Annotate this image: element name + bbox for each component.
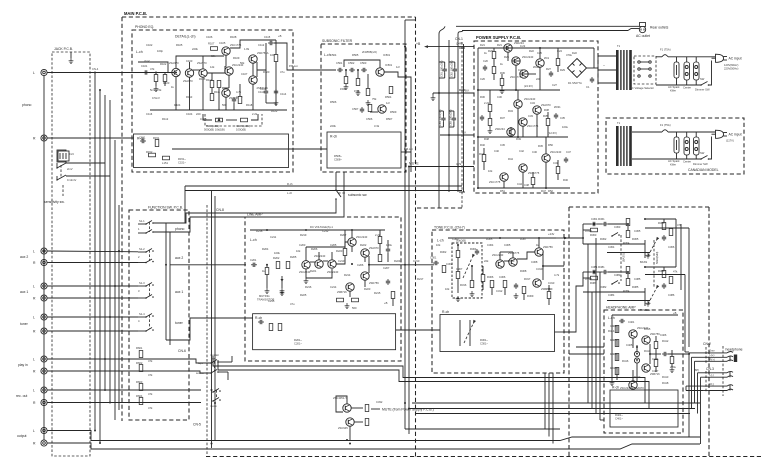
svg-text:R418: R418 bbox=[662, 381, 669, 385]
svg-text:R306: R306 bbox=[487, 275, 494, 279]
svg-text:22k: 22k bbox=[484, 259, 489, 263]
svg-text:R214: R214 bbox=[344, 273, 351, 277]
svg-text:output: output bbox=[17, 434, 26, 438]
svg-text:220V(50Hz): 220V(50Hz) bbox=[724, 67, 738, 71]
svg-text:R385: R385 bbox=[632, 285, 639, 289]
resistor R152 bbox=[146, 150, 156, 157]
capacitor C381 bbox=[591, 270, 597, 274]
resistor R210 bbox=[352, 298, 359, 302]
wire ps inner rails bbox=[478, 48, 594, 188]
svg-text:C364: C364 bbox=[608, 245, 615, 249]
svg-text:R23: R23 bbox=[488, 49, 493, 53]
svg-text:R223: R223 bbox=[364, 287, 371, 291]
svg-text:IC501: IC501 bbox=[385, 63, 393, 67]
svg-text:T1: T1 bbox=[617, 44, 621, 48]
wire BK2 bbox=[440, 131, 474, 136]
svg-text:C502: C502 bbox=[348, 61, 355, 65]
resistor R26 bbox=[556, 59, 560, 66]
svg-text:PHONO EQ.: PHONO EQ. bbox=[135, 25, 154, 29]
svg-text:R225: R225 bbox=[300, 293, 307, 297]
wire function to lineamp R bbox=[166, 318, 253, 340]
svg-text:C116: C116 bbox=[146, 112, 153, 116]
svg-text:2SC2240: 2SC2240 bbox=[522, 55, 534, 59]
svg-text:220k: 220k bbox=[192, 47, 198, 51]
svg-text:R308: R308 bbox=[520, 269, 527, 273]
wire q2q3 bbox=[193, 69, 200, 71]
transistor Q205 bbox=[361, 246, 379, 257]
svg-text:R37: R37 bbox=[500, 116, 505, 120]
svg-text:R110: R110 bbox=[186, 95, 193, 99]
svg-text:47k: 47k bbox=[677, 223, 682, 227]
svg-text:C303: C303 bbox=[452, 237, 459, 241]
svg-text:2SA970: 2SA970 bbox=[369, 246, 379, 250]
svg-text:R305: R305 bbox=[486, 237, 493, 241]
sensitivity switch bbox=[56, 150, 76, 182]
wire bus v4 bbox=[109, 100, 111, 403]
sensitivity dashed link bbox=[58, 151, 69, 196]
svg-text:C104: C104 bbox=[186, 112, 193, 116]
svg-text:D1 S5277A: D1 S5277A bbox=[568, 81, 582, 85]
resistor R213 bbox=[384, 292, 395, 306]
resistor R403 bbox=[615, 354, 619, 361]
svg-text:R-ch: R-ch bbox=[255, 316, 262, 320]
bridge rectifier D1 bbox=[568, 59, 587, 86]
tone RC network L-ch bbox=[583, 217, 676, 264]
svg-text:sensitivity sw.: sensitivity sw. bbox=[44, 200, 65, 204]
svg-text:150k: 150k bbox=[354, 89, 360, 93]
resistor R333 bbox=[626, 231, 630, 238]
muting transistor Q91 bbox=[333, 396, 351, 412]
power stubs2 bbox=[484, 48, 558, 188]
transistor Q8 bbox=[495, 127, 515, 136]
svg-text:47u: 47u bbox=[280, 70, 285, 74]
svg-text:+B: +B bbox=[278, 34, 282, 38]
svg-text:C310: C310 bbox=[536, 267, 543, 271]
svg-text:Center: Center bbox=[683, 160, 691, 164]
svg-text:R218: R218 bbox=[256, 229, 263, 233]
svg-text:R206: R206 bbox=[311, 247, 318, 251]
resistor R332 bbox=[626, 219, 630, 226]
subsonic R-ch box bbox=[327, 132, 401, 168]
wire tuner L to sw bbox=[47, 316, 138, 318]
svg-text:1/2: 1/2 bbox=[386, 101, 390, 105]
svg-text:R219: R219 bbox=[300, 233, 307, 237]
svg-text:C308: C308 bbox=[531, 260, 538, 264]
transistor Q5 bbox=[514, 97, 536, 108]
filter block 1C bbox=[683, 132, 691, 164]
AC line wires to outlet bbox=[456, 26, 639, 30]
resistor R212 bbox=[378, 255, 382, 262]
svg-text:R38: R38 bbox=[544, 108, 549, 112]
svg-text:C301: C301 bbox=[430, 256, 437, 260]
resistor R201 bbox=[265, 265, 270, 294]
resistor R151 bbox=[153, 136, 160, 147]
svg-text:R152: R152 bbox=[146, 150, 153, 154]
transistor Q7 bbox=[519, 118, 539, 128]
svg-text:47k: 47k bbox=[673, 270, 678, 274]
svg-text:Dimmer SW.: Dimmer SW. bbox=[695, 88, 710, 92]
resistor R91 bbox=[365, 405, 369, 412]
MUTE feed wire bbox=[409, 162, 474, 167]
wire rail Lch bbox=[185, 191, 462, 196]
svg-text:+B: +B bbox=[673, 311, 677, 315]
svg-text:R122: R122 bbox=[271, 109, 278, 113]
resistor RF4 bbox=[136, 394, 143, 405]
wire trim bbox=[203, 114, 212, 120]
wire mid bbox=[207, 66, 225, 73]
svg-text:2SA970: 2SA970 bbox=[169, 61, 179, 65]
svg-text:R151: R151 bbox=[153, 136, 160, 140]
svg-text:R107: R107 bbox=[208, 42, 215, 46]
capacitor C61 bbox=[439, 60, 447, 78]
svg-text:headphone: headphone bbox=[726, 348, 743, 352]
svg-text:R21: R21 bbox=[497, 43, 502, 47]
svg-text:ZD31: ZD31 bbox=[554, 105, 561, 109]
svg-text:L(-): L(-) bbox=[710, 373, 714, 377]
svg-text:C206: C206 bbox=[357, 263, 364, 267]
capacitor C201 bbox=[250, 258, 257, 267]
transistor Q107 bbox=[249, 76, 268, 90]
svg-text:R27: R27 bbox=[546, 67, 551, 71]
AC spark killer bbox=[668, 57, 680, 93]
muting transistor label bbox=[257, 294, 274, 302]
svg-text:1.8k: 1.8k bbox=[244, 47, 250, 51]
wire rc links R bbox=[583, 267, 676, 292]
resistor R407 bbox=[670, 357, 674, 364]
headphone amp dashed box bbox=[604, 310, 683, 433]
wire pb out R bbox=[172, 148, 289, 150]
diode D402 bbox=[634, 358, 639, 363]
canadian model dashed box bbox=[606, 118, 744, 174]
svg-text:L: L bbox=[33, 358, 35, 362]
power supply dashed box bbox=[474, 41, 598, 193]
svg-text:C151~: C151~ bbox=[178, 161, 186, 165]
svg-text:R106: R106 bbox=[199, 77, 206, 81]
resistor R331 bbox=[591, 228, 598, 232]
svg-text:R386: R386 bbox=[658, 269, 665, 273]
svg-text:Killer: Killer bbox=[670, 89, 676, 93]
svg-text:R109: R109 bbox=[233, 56, 240, 60]
svg-text:0.22: 0.22 bbox=[520, 44, 526, 48]
svg-text:R382: R382 bbox=[600, 285, 607, 289]
svg-text:HEADPHONE AMP: HEADPHONE AMP bbox=[606, 306, 636, 310]
wire aux1 R to sw bbox=[47, 297, 138, 299]
transistor Q304 bbox=[533, 279, 551, 291]
rc out wires bbox=[645, 223, 689, 352]
svg-text:F1 (T5A): F1 (T5A) bbox=[660, 123, 671, 127]
svg-text:aux 1: aux 1 bbox=[175, 290, 183, 294]
line amp grounds bbox=[280, 278, 350, 309]
+B feed wire bbox=[416, 42, 474, 48]
capacitor C384 bbox=[662, 283, 666, 289]
wire bus v5 bbox=[114, 140, 116, 420]
ground bbox=[69, 52, 74, 64]
transistor Q103 bbox=[197, 61, 207, 77]
pot gang dotted vertical bbox=[621, 235, 659, 287]
switch SWC bbox=[632, 137, 712, 167]
svg-text:R103: R103 bbox=[163, 81, 170, 85]
pin labels bbox=[694, 368, 699, 372]
svg-text:R52: R52 bbox=[548, 189, 553, 193]
wire BK1 bbox=[431, 89, 474, 101]
svg-text:2SC4051-Y: 2SC4051-Y bbox=[333, 396, 347, 400]
svg-text:CN-3: CN-3 bbox=[706, 367, 714, 371]
svg-text:R118: R118 bbox=[246, 103, 253, 107]
svg-text:C46: C46 bbox=[532, 150, 537, 154]
svg-text:C214: C214 bbox=[330, 285, 337, 289]
jack output R bbox=[33, 440, 47, 446]
svg-text:R36: R36 bbox=[500, 71, 505, 75]
svg-text:(24P): (24P) bbox=[456, 42, 463, 46]
svg-text:L-ch: L-ch bbox=[608, 316, 615, 320]
svg-text:+24V: +24V bbox=[548, 232, 555, 236]
capacitor C209 bbox=[386, 279, 390, 285]
resistor R334 bbox=[662, 223, 666, 230]
label la rch parts bbox=[294, 338, 302, 346]
wire ha out bbox=[668, 353, 689, 355]
svg-text:R-ch: R-ch bbox=[612, 386, 619, 390]
svg-text:R415: R415 bbox=[644, 327, 651, 331]
switch aux1 R bbox=[138, 284, 154, 299]
svg-text:2SC2240: 2SC2240 bbox=[492, 253, 504, 257]
tone RC network R-ch bbox=[583, 265, 676, 312]
svg-text:0.033: 0.033 bbox=[585, 229, 592, 233]
svg-text:C507: C507 bbox=[352, 107, 359, 111]
svg-text:T1: T1 bbox=[617, 121, 621, 125]
labels power cluster bbox=[480, 43, 572, 193]
capacitor C401 bbox=[619, 319, 635, 324]
right dashed box (tone/headphone pcb) bbox=[569, 207, 709, 456]
svg-text:2SC2240⊠ 2SA970: 2SC2240⊠ 2SA970 bbox=[620, 386, 644, 390]
svg-text:120V(60Hz): 120V(60Hz) bbox=[724, 63, 738, 67]
svg-text:C384: C384 bbox=[608, 293, 615, 297]
svg-text:C312: C312 bbox=[496, 289, 503, 293]
svg-text:R603: R603 bbox=[136, 380, 143, 384]
capacitor C62 bbox=[449, 60, 457, 78]
subsonic switch bbox=[335, 172, 367, 205]
svg-text:100Ω(B): 100Ω(B) bbox=[236, 128, 246, 132]
svg-text:2N4558(1/2): 2N4558(1/2) bbox=[362, 50, 377, 54]
lineamp stubs bbox=[306, 230, 393, 306]
svg-text:C210: C210 bbox=[413, 259, 420, 263]
svg-text:560: 560 bbox=[352, 306, 357, 310]
svg-text:R34: R34 bbox=[508, 109, 513, 113]
wire rec-out R bbox=[47, 402, 201, 404]
svg-text:L: L bbox=[33, 71, 35, 75]
capacitor C32 bbox=[554, 113, 558, 119]
filter block 2C bbox=[694, 132, 700, 159]
capacitor C402 bbox=[662, 352, 668, 356]
svg-text:R508~: R508~ bbox=[334, 154, 342, 158]
transistor Q104 bbox=[222, 43, 242, 55]
svg-text:C407: C407 bbox=[652, 369, 659, 373]
jack phono L bbox=[33, 69, 47, 75]
svg-text:R108: R108 bbox=[230, 35, 237, 39]
resistor R101 bbox=[150, 73, 162, 93]
wire output R long bbox=[47, 443, 700, 449]
svg-text:R505: R505 bbox=[352, 53, 359, 57]
svg-text:47k: 47k bbox=[148, 406, 153, 410]
svg-text:47k: 47k bbox=[148, 359, 153, 363]
resistor R43 bbox=[556, 167, 560, 174]
svg-text:Rear outlets: Rear outlets bbox=[650, 26, 669, 30]
switch turnover R bbox=[611, 281, 620, 285]
svg-text:(24.3V): (24.3V) bbox=[524, 84, 533, 88]
wire subsonic in L bbox=[293, 69, 336, 71]
svg-text:R604: R604 bbox=[136, 394, 143, 398]
transistor Q301 bbox=[492, 253, 504, 268]
svg-text:R28: R28 bbox=[504, 55, 509, 59]
svg-text:Killer: Killer bbox=[670, 163, 676, 167]
diode D401 bbox=[634, 351, 639, 356]
svg-text:0.5mV: 0.5mV bbox=[152, 96, 160, 100]
diode D201 bbox=[280, 276, 285, 294]
svg-text:R301~: R301~ bbox=[480, 338, 488, 342]
svg-text:R.ch: R.ch bbox=[287, 182, 293, 186]
svg-text:2SD756: 2SD756 bbox=[650, 332, 660, 336]
transistor Q202 bbox=[314, 254, 326, 268]
resistor R92 bbox=[365, 419, 369, 426]
svg-text:Center: Center bbox=[683, 86, 691, 90]
capacitor C331 bbox=[591, 222, 597, 226]
svg-text:R22: R22 bbox=[529, 49, 534, 53]
transistor Q105 bbox=[225, 63, 244, 75]
svg-text:S1-3: S1-3 bbox=[139, 281, 145, 285]
svg-text:C313: C313 bbox=[548, 281, 555, 285]
resistor R251 bbox=[269, 324, 273, 331]
label +B ha bbox=[673, 311, 677, 315]
svg-text:MAIN P.C.B.: MAIN P.C.B. bbox=[124, 11, 147, 16]
svg-text:R309: R309 bbox=[527, 294, 534, 298]
transistor Q206 bbox=[361, 272, 379, 285]
wire aux2 R to sw bbox=[47, 262, 138, 264]
svg-text:C207: C207 bbox=[383, 266, 390, 270]
svg-text:L: L bbox=[33, 316, 35, 320]
svg-text:C306: C306 bbox=[499, 275, 506, 279]
capacitor C333 bbox=[662, 235, 666, 241]
svg-text:R307: R307 bbox=[520, 237, 527, 241]
svg-text:R30: R30 bbox=[480, 95, 485, 99]
resistor R114 bbox=[210, 94, 214, 101]
svg-text:R602: R602 bbox=[136, 361, 143, 365]
svg-text:C401~: C401~ bbox=[615, 417, 623, 421]
svg-text:2SC1775: 2SC1775 bbox=[528, 171, 540, 175]
resistor R113 bbox=[206, 78, 214, 88]
transistor Q10 bbox=[542, 150, 562, 162]
svg-text:R47: R47 bbox=[541, 189, 546, 193]
CN dashed vertical bbox=[206, 205, 208, 455]
svg-text:L: L bbox=[33, 429, 35, 433]
resistor R404 bbox=[615, 368, 619, 375]
svg-text:C1: C1 bbox=[586, 85, 590, 89]
svg-text:C506: C506 bbox=[366, 117, 373, 121]
capacitor C31 bbox=[480, 115, 484, 121]
svg-text:220u: 220u bbox=[670, 365, 676, 369]
resistor R406 bbox=[654, 360, 658, 367]
svg-text:R414: R414 bbox=[608, 329, 615, 333]
svg-text:C332: C332 bbox=[376, 400, 383, 404]
CN-3 connector bbox=[703, 367, 714, 393]
svg-text:AC Spark: AC Spark bbox=[668, 159, 680, 163]
svg-text:CN-5: CN-5 bbox=[193, 423, 201, 427]
svg-text:R506: R506 bbox=[330, 100, 337, 104]
ground bus wire bbox=[43, 76, 45, 441]
wire bus v2 bbox=[99, 90, 101, 443]
svg-text:AC Voltage Selector: AC Voltage Selector bbox=[630, 86, 654, 90]
svg-text:10k: 10k bbox=[296, 249, 301, 253]
wire emitter row bbox=[175, 77, 177, 110]
svg-text:F1 (T5A): F1 (T5A) bbox=[660, 48, 671, 52]
svg-text:220k: 220k bbox=[330, 124, 336, 128]
svg-text:R151~: R151~ bbox=[178, 157, 186, 161]
svg-text:4.7k: 4.7k bbox=[554, 273, 560, 277]
svg-text:2SC1775: 2SC1775 bbox=[489, 180, 501, 184]
resistor R402 bbox=[615, 340, 619, 347]
svg-text:C406: C406 bbox=[660, 333, 667, 337]
transistor Q404 bbox=[626, 381, 638, 394]
tone stubs bbox=[483, 252, 549, 305]
svg-text:C102: C102 bbox=[146, 43, 153, 47]
svg-text:100: 100 bbox=[270, 53, 275, 57]
coil L151 bbox=[162, 156, 170, 165]
svg-text:R601: R601 bbox=[136, 346, 143, 350]
svg-text:R366: R366 bbox=[658, 221, 665, 225]
svg-text:C107: C107 bbox=[241, 72, 248, 76]
svg-text:DETAIL(L-ch): DETAIL(L-ch) bbox=[175, 35, 195, 39]
svg-text:CN-4: CN-4 bbox=[92, 67, 99, 71]
svg-text:R509: R509 bbox=[390, 110, 397, 114]
trimmer dashed bracket bbox=[205, 114, 262, 126]
svg-text:75k: 75k bbox=[372, 97, 377, 101]
labels subsonic cluster bbox=[336, 61, 400, 121]
ground rc L bbox=[607, 253, 650, 259]
resistor R121 bbox=[274, 55, 278, 62]
svg-text:R50: R50 bbox=[548, 143, 553, 147]
svg-text:aux 1: aux 1 bbox=[20, 290, 28, 294]
capacitor C208 bbox=[386, 247, 390, 253]
svg-text:+B: +B bbox=[416, 42, 421, 46]
svg-text:C211: C211 bbox=[270, 235, 277, 239]
svg-text:R304: R304 bbox=[470, 247, 477, 251]
resistor R383 bbox=[626, 279, 630, 286]
svg-text:C383: C383 bbox=[614, 273, 621, 277]
capacitor C332b bbox=[602, 222, 608, 226]
jack rec-out L bbox=[33, 387, 47, 393]
svg-text:R417: R417 bbox=[634, 375, 641, 379]
switch aux2 R bbox=[138, 250, 154, 263]
wire sw phono out bbox=[153, 223, 170, 345]
wire rc links L bbox=[583, 219, 676, 244]
phono R input wire bbox=[47, 137, 134, 139]
wires tone to rc bbox=[564, 219, 681, 332]
svg-text:2SA970: 2SA970 bbox=[197, 61, 207, 65]
svg-text:~: ~ bbox=[603, 64, 605, 68]
transistor Q106 bbox=[249, 51, 269, 63]
resistor R311 bbox=[481, 275, 485, 282]
svg-text:10k: 10k bbox=[488, 169, 493, 173]
svg-text:D21: D21 bbox=[480, 43, 485, 47]
svg-text:C47: C47 bbox=[566, 150, 571, 154]
resistor RF1 bbox=[136, 346, 143, 358]
wire play-in L bbox=[47, 359, 211, 363]
wire ha links bbox=[612, 315, 678, 381]
resistor R301 bbox=[442, 266, 446, 273]
svg-text:C302: C302 bbox=[446, 262, 453, 266]
resistor R401 bbox=[615, 326, 619, 333]
svg-text:R105: R105 bbox=[176, 43, 183, 47]
svg-text:500Ω(B) 10kΩ(B): 500Ω(B) 10kΩ(B) bbox=[204, 128, 225, 132]
resistor R312 bbox=[490, 281, 494, 288]
